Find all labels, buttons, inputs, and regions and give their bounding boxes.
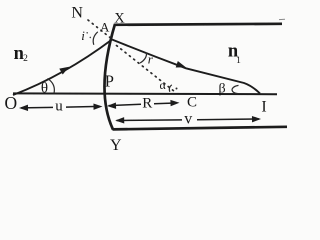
- svg-text:P: P: [105, 72, 114, 91]
- svg-text:R: R: [142, 96, 152, 112]
- svg-text:r: r: [148, 52, 154, 67]
- svg-text:2: 2: [23, 54, 28, 64]
- svg-text:u: u: [55, 98, 63, 114]
- svg-text:v: v: [184, 111, 192, 128]
- svg-text:β: β: [218, 81, 225, 96]
- svg-text:α: α: [160, 78, 167, 92]
- svg-text:Y: Y: [110, 137, 122, 154]
- svg-text:C: C: [187, 95, 197, 111]
- svg-text:I: I: [261, 99, 266, 116]
- svg-text:1: 1: [236, 56, 241, 66]
- svg-text:N: N: [71, 5, 83, 22]
- svg-text:θ: θ: [41, 80, 48, 96]
- svg-text:O: O: [4, 93, 17, 113]
- svg-text:A: A: [100, 20, 110, 35]
- svg-text:X: X: [114, 11, 125, 27]
- svg-text:i: i: [81, 28, 85, 43]
